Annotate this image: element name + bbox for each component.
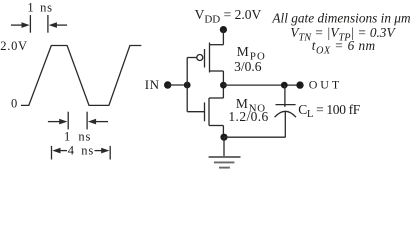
rise-time arrow right [55,24,68,26]
svg-text:1.2/0.6: 1.2/0.6 [228,109,268,124]
fall-time arrow left [48,121,62,123]
wire PMOS drain to output node [222,71,224,85]
svg-text:1 ns: 1 ns [27,1,52,15]
input waveform trace [21,46,141,106]
wire PMOS gate stub [187,57,197,59]
period bracket 4 ns left [51,146,53,160]
svg-text:IN: IN [145,77,160,92]
svg-text:1 ns: 1 ns [64,130,91,144]
svg-text:tOX = 6 nm: tOX = 6 nm [312,38,376,56]
period bracket 4 ns right [95,150,103,152]
svg-text:OUT: OUT [309,78,342,92]
node ground junction [220,134,227,141]
capacitor C_L [284,85,286,107]
svg-text:4 ns: 4 ns [68,143,94,157]
wire NMOS source to ground junction [222,126,224,138]
transistor M_NO (NMOS) [208,98,210,126]
wire to ground [223,137,225,157]
wire output [223,84,300,86]
svg-text:0: 0 [11,97,17,111]
svg-text:3/0.6: 3/0.6 [234,59,262,74]
wire CL bottom return [224,136,286,138]
wire IN to gate junction [168,84,188,86]
svg-text:CL = 100 fF: CL = 100 fF [298,102,361,120]
wire VDD to PMOS source [222,30,224,45]
node OUT terminal [296,81,303,88]
transistor M_PO (PMOS) [209,43,211,73]
wire NMOS drain to output node [222,85,224,98]
node VDD [220,26,227,33]
svg-text:2.0V: 2.0V [0,39,27,53]
svg-text:VDD = 2.0V: VDD = 2.0V [195,7,262,26]
rise-time arrow left [11,24,24,26]
node IN terminal [164,81,171,88]
wire NMOS gate stub [187,111,204,113]
node output junction [220,82,227,89]
wire gate vertical [186,58,188,112]
svg-text:All gate dimensions in μm: All gate dimensions in μm [271,10,411,25]
fall-time arrow right [94,121,108,123]
node CL junction [281,82,288,89]
node gate junction [184,82,191,89]
ground [209,157,241,168]
